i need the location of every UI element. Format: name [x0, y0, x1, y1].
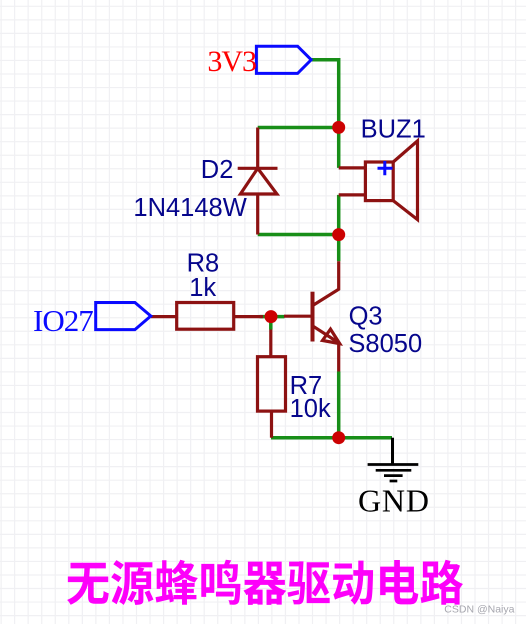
- svg-text:BUZ1: BUZ1: [361, 115, 426, 143]
- svg-text:10k: 10k: [290, 395, 331, 423]
- svg-text:S8050: S8050: [348, 330, 422, 358]
- svg-text:IO27: IO27: [33, 303, 93, 338]
- svg-text:1N4148W: 1N4148W: [133, 194, 246, 222]
- svg-text:GND: GND: [358, 483, 430, 519]
- svg-text:1k: 1k: [189, 274, 216, 302]
- svg-text:CSDN @Naiya: CSDN @Naiya: [444, 604, 514, 616]
- svg-text:Q3: Q3: [349, 303, 383, 331]
- svg-text:3V3: 3V3: [207, 45, 256, 78]
- svg-text:D2: D2: [201, 156, 234, 184]
